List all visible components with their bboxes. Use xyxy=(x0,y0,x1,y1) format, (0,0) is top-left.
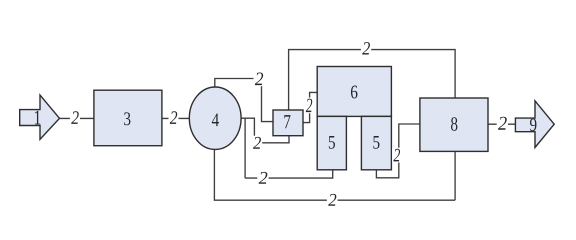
label 5 in right block 5 xyxy=(373,136,379,149)
label 2 on middle rail xyxy=(259,172,268,184)
wire block8 bottom down xyxy=(454,151,456,200)
label 8 in block 8 xyxy=(451,117,457,131)
arrow block 1 xyxy=(20,95,60,139)
label 2 between arrow1 and block3 xyxy=(71,111,79,124)
wire right block5 bottom to block8 left xyxy=(376,124,420,178)
wire ellipse4 right to block7 bottom xyxy=(241,118,289,143)
wire middle rail to left block5 bottom xyxy=(245,170,333,178)
block 6 xyxy=(317,67,391,117)
label 2 on top rail xyxy=(362,42,370,54)
label 2 on ellipse-top wire xyxy=(255,72,263,85)
wire block8 right to arrow9 xyxy=(488,123,515,125)
block 8 xyxy=(420,98,488,151)
wire block3 to ellipse4 xyxy=(162,117,189,119)
label 2 on ellipse-right to block7 wire xyxy=(253,137,261,149)
wire bottom rail from ellipse4 bottom to block8 bottom xyxy=(214,149,455,200)
label 1 in arrow 1 xyxy=(35,111,40,125)
label 2 between block8 and arrow9 xyxy=(498,117,507,130)
label 6 in block 6 xyxy=(351,86,357,99)
label 2 between block3 and ellipse4 xyxy=(170,111,177,124)
label 5 in left block 5 xyxy=(329,136,335,149)
wire block7 right to block6 left xyxy=(303,92,318,122)
label 4 in ellipse 4 xyxy=(212,113,219,126)
block 5 right xyxy=(361,116,391,169)
block 7 xyxy=(273,110,303,136)
label 2 on right-block5 wire xyxy=(393,149,400,162)
label 9 in arrow 9 xyxy=(530,119,536,132)
block 3 xyxy=(94,90,162,146)
label 2 on bottom rail xyxy=(328,194,336,206)
ellipse 4 xyxy=(189,87,241,149)
white gaps where wire labels sit on lines xyxy=(70,41,508,207)
arrow block 9 xyxy=(515,101,554,148)
block 5 left xyxy=(317,116,346,169)
wire ellipse4 top to block7 left xyxy=(215,79,273,122)
label 7 in block 7 xyxy=(284,115,290,128)
label 3 in block 3 xyxy=(124,112,130,125)
wire branch down from ellipse-right junction xyxy=(244,118,246,178)
wire top rail from block7 top to block8 top xyxy=(289,50,456,110)
wire arrow1 to block3 xyxy=(60,117,94,119)
label 2 on block7-right wire xyxy=(306,99,312,113)
